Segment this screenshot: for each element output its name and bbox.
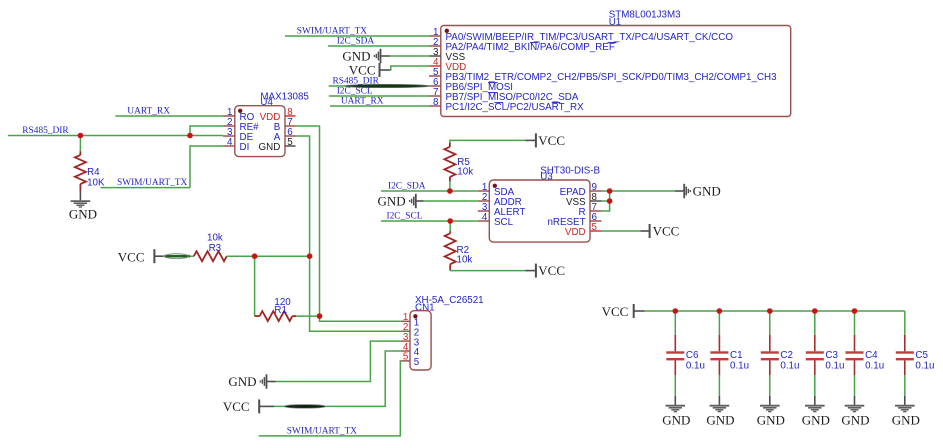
U3 pin 5 stub bbox=[590, 230, 602, 232]
U3 pin 2 stub bbox=[478, 200, 490, 202]
wire net SWIM/UART_TX to U1 pin 1 bbox=[285, 35, 429, 37]
svg-text:U3: U3 bbox=[540, 172, 553, 183]
wire U4 pin 4 DI down to SWIM/UART_TX bbox=[190, 146, 223, 188]
wire VCC to R3 (thick) bbox=[163, 255, 194, 257]
IC U4 body bbox=[235, 106, 285, 157]
junction R3 / net A vertical bbox=[307, 253, 313, 259]
wire net RS485_DIR to U1 pin 6 (thick) bbox=[329, 85, 429, 87]
svg-text:0.1u: 0.1u bbox=[730, 361, 749, 372]
svg-text:GND: GND bbox=[841, 413, 869, 428]
svg-text:UART_RX: UART_RX bbox=[341, 97, 384, 107]
U4 pin 3 stub bbox=[223, 135, 235, 137]
U3 pin 8 stub bbox=[590, 200, 602, 202]
wire U4 pin 6 A down to CN1 pin 2 bbox=[295, 136, 400, 331]
svg-text:8: 8 bbox=[433, 97, 439, 108]
svg-text:10K: 10K bbox=[87, 177, 105, 188]
svg-text:PA2/PA4/TIM2_BKIN/PA6/COMP_REF: PA2/PA4/TIM2_BKIN/PA6/COMP_REF bbox=[446, 42, 615, 53]
svg-text:SCL: SCL bbox=[494, 217, 514, 228]
U1 pin 7 name overline over M of MISO bbox=[488, 92, 498, 94]
ground below R4 bbox=[79, 191, 81, 201]
U3 pin 7 stub bbox=[590, 210, 602, 212]
U4 pin-1 marker dot bbox=[238, 109, 242, 113]
svg-text:VCC: VCC bbox=[349, 63, 376, 78]
svg-text:GND: GND bbox=[892, 413, 920, 428]
wire CN1 pin 4 to VCC (thick) bbox=[274, 351, 401, 406]
wire CN1 pin 3 to GND bbox=[276, 341, 401, 381]
wire VSS and R to EPAD net bbox=[602, 200, 610, 202]
svg-text:PC1/I2C_SCL/PC2/USART_RX: PC1/I2C_SCL/PC2/USART_RX bbox=[446, 102, 585, 113]
U1 pin 2 name trailing overline after COMP_REF bbox=[608, 42, 617, 44]
wire net I2C_SCL to U1 pin 7 bbox=[329, 95, 429, 97]
junction I2C_SCL / R2 bbox=[447, 218, 453, 224]
resistor R2 bbox=[449, 221, 451, 231]
wire net B to CN1 pin 1 bbox=[320, 316, 401, 321]
U3 pin-1 marker dot bbox=[493, 184, 497, 188]
U3 pin 6 stub bbox=[590, 220, 602, 222]
wire GND to U1 pin 3 VSS bbox=[390, 55, 429, 57]
U1 pin 5 stub bbox=[429, 75, 441, 77]
op IC U1 body bbox=[441, 26, 791, 117]
svg-text:GND: GND bbox=[706, 413, 734, 428]
svg-text:GND: GND bbox=[662, 413, 690, 428]
wire R3 to net A bbox=[227, 255, 310, 257]
wire VCC rail bbox=[645, 310, 905, 312]
U1 pin 4 stub bbox=[429, 65, 441, 67]
svg-text:0.1u: 0.1u bbox=[915, 361, 934, 372]
svg-text:GND: GND bbox=[228, 374, 256, 389]
svg-text:C6: C6 bbox=[686, 350, 699, 361]
svg-text:VDD: VDD bbox=[565, 227, 586, 238]
svg-text:C5: C5 bbox=[915, 350, 928, 361]
ground below C6 bbox=[674, 396, 676, 405]
svg-text:4: 4 bbox=[482, 212, 488, 223]
svg-text:GND: GND bbox=[342, 49, 370, 64]
ground below C1 bbox=[718, 396, 720, 405]
svg-text:C2: C2 bbox=[780, 350, 793, 361]
svg-text:0.1u: 0.1u bbox=[825, 361, 844, 372]
junction R3 / R1 branch bbox=[252, 253, 258, 259]
ground below C4 bbox=[854, 396, 856, 405]
U4 pin 7 stub bbox=[285, 125, 296, 127]
U1 pin 1 stub bbox=[429, 35, 441, 37]
ground below C3 bbox=[814, 396, 816, 405]
svg-text:R3: R3 bbox=[209, 243, 222, 254]
junction VSS branch bbox=[607, 198, 613, 204]
wire net SWIM/UART_TX mid bbox=[101, 187, 191, 189]
U1 pin-1 marker dot bbox=[445, 29, 449, 33]
svg-text:VCC: VCC bbox=[223, 399, 250, 414]
wire R2 down to VCC bbox=[450, 270, 525, 272]
svg-text:VCC: VCC bbox=[538, 133, 565, 148]
U4 pin 8 stub bbox=[285, 115, 296, 117]
svg-text:5: 5 bbox=[592, 222, 598, 233]
junction VCC rail / C2 bbox=[767, 308, 773, 314]
U4 pin 2 stub bbox=[223, 125, 235, 127]
svg-text:10k: 10k bbox=[207, 233, 223, 244]
wire net I2C_SCL to U3 pin 4 bbox=[381, 220, 478, 222]
svg-text:VCC: VCC bbox=[538, 263, 565, 278]
svg-text:UART_RX: UART_RX bbox=[127, 107, 170, 117]
svg-text:GND: GND bbox=[378, 194, 406, 209]
wire U4 pin 2 RE# to RS485_DIR bbox=[190, 126, 223, 136]
svg-text:5: 5 bbox=[414, 357, 420, 368]
U1 pin 6 stub bbox=[429, 85, 441, 87]
resistor R1 bbox=[255, 315, 260, 317]
svg-text:I2C_SDA: I2C_SDA bbox=[388, 182, 426, 192]
svg-text:GND: GND bbox=[802, 413, 830, 428]
wire VCC to U1 pin 4 VDD bbox=[390, 66, 429, 70]
svg-text:I2C_SDA: I2C_SDA bbox=[337, 37, 375, 47]
svg-text:10k: 10k bbox=[457, 254, 473, 265]
power symbol VCC right of U3 bbox=[640, 230, 649, 232]
wire net I2C_SDA to U3 pin 1 bbox=[381, 190, 478, 192]
wire R5 up to VCC bbox=[450, 140, 525, 143]
svg-text:0.1u: 0.1u bbox=[865, 361, 884, 372]
capacitor C5 bbox=[904, 311, 906, 335]
wire U4 pin 7 B down to junction bbox=[295, 126, 319, 316]
junction VCC rail / C3 bbox=[812, 308, 818, 314]
U4 pin 1 stub bbox=[223, 115, 235, 117]
U3 pin 4 stub bbox=[478, 220, 490, 222]
resistor R5 bbox=[449, 181, 451, 191]
wire down to R1 bbox=[254, 256, 256, 316]
U1 pin 8 stub bbox=[429, 105, 441, 107]
CN1 pin-1 marker dot bbox=[413, 314, 417, 318]
U1 pin 2 name overline over N of BKIN bbox=[530, 42, 538, 44]
IC U3 body bbox=[489, 180, 590, 242]
U1 pin 7 stub bbox=[429, 95, 441, 97]
wire RS485_DIR down to R4 bbox=[79, 136, 81, 152]
svg-text:SWIM/UART_TX: SWIM/UART_TX bbox=[287, 427, 357, 437]
svg-text:I2C_SCL: I2C_SCL bbox=[337, 87, 373, 97]
wire R1 to junction net B bbox=[296, 315, 320, 317]
junction I2C_SDA / R5 bbox=[447, 188, 453, 194]
svg-text:U4: U4 bbox=[260, 97, 273, 108]
CN1 pin 3 stub bbox=[401, 340, 410, 342]
junction R1 / net B / CN1 pin 1 bbox=[317, 313, 323, 319]
svg-text:R1: R1 bbox=[274, 305, 287, 316]
svg-text:GND: GND bbox=[69, 207, 97, 222]
svg-text:10k: 10k bbox=[457, 167, 473, 178]
U3 pin 9 stub bbox=[590, 190, 602, 192]
power symbol GND right of U3 bbox=[675, 190, 684, 192]
svg-text:C3: C3 bbox=[825, 350, 838, 361]
svg-text:CN1: CN1 bbox=[415, 302, 435, 313]
svg-text:GND: GND bbox=[693, 184, 721, 199]
CN1 pin 2 stub bbox=[401, 330, 410, 332]
junction VCC rail / C1 bbox=[717, 308, 723, 314]
wire U3 pin 5 VDD to VCC bbox=[602, 230, 641, 232]
svg-text:C4: C4 bbox=[865, 350, 878, 361]
svg-text:GND: GND bbox=[757, 413, 785, 428]
U1 pin 3 stub bbox=[429, 55, 441, 57]
svg-text:5: 5 bbox=[287, 137, 293, 148]
wire net UART_RX to U4 pin 1 RO bbox=[115, 115, 223, 117]
power symbol VCC below R2 bbox=[525, 270, 536, 272]
junction RS485_DIR / R4 bbox=[78, 133, 84, 139]
wire U3 pin 9 EPAD to GND bbox=[602, 190, 676, 192]
capacitor C2 bbox=[769, 311, 771, 335]
svg-text:C1: C1 bbox=[730, 350, 743, 361]
capacitor C1 bbox=[718, 311, 720, 335]
wire net RS485_DIR horizontal bbox=[8, 135, 223, 137]
capacitor C4 bbox=[854, 311, 856, 335]
svg-text:GND: GND bbox=[259, 142, 281, 153]
wire CN1 pin 5 to SWIM/UART_TX bbox=[259, 361, 401, 436]
resistor R3 bbox=[194, 251, 227, 261]
wire GND to U3 pin 2 bbox=[424, 200, 478, 202]
junction VCC rail / C4 bbox=[852, 308, 858, 314]
junction RS485_DIR / RE# bbox=[187, 133, 193, 139]
junction VCC rail / C6 bbox=[673, 308, 679, 314]
capacitor C6 bbox=[674, 311, 676, 335]
U1 pin 2 stub bbox=[429, 45, 441, 47]
U4 pin 5 stub bbox=[285, 145, 296, 147]
U3 pin 1 stub bbox=[478, 190, 490, 192]
svg-text:5: 5 bbox=[403, 352, 409, 363]
svg-text:4: 4 bbox=[227, 137, 233, 148]
svg-text:DI: DI bbox=[240, 142, 250, 153]
U1 pin 8 name overline over C of SCL bbox=[495, 102, 504, 104]
wire net UART_RX to U1 pin 8 bbox=[330, 105, 429, 107]
U4 pin 6 stub bbox=[285, 135, 296, 137]
U3 pin 3 stub bbox=[478, 210, 490, 212]
svg-text:RS485_DIR: RS485_DIR bbox=[333, 77, 380, 87]
svg-text:VCC: VCC bbox=[602, 304, 629, 319]
svg-text:I2C_SCL: I2C_SCL bbox=[387, 212, 423, 222]
ground below C2 bbox=[769, 396, 771, 405]
svg-text:0.1u: 0.1u bbox=[780, 361, 799, 372]
svg-text:RS485_DIR: RS485_DIR bbox=[22, 126, 69, 136]
resistor R4 bbox=[79, 151, 81, 155]
svg-text:VCC: VCC bbox=[118, 250, 145, 265]
CN1 pin 4 stub bbox=[401, 350, 410, 352]
junction EPAD / VSS net bbox=[607, 188, 613, 194]
svg-text:VCC: VCC bbox=[653, 224, 680, 239]
svg-text:SWIM/UART_TX: SWIM/UART_TX bbox=[297, 27, 367, 37]
U1 pin 8 name overline over R of USART bbox=[552, 102, 561, 104]
svg-text:0.1u: 0.1u bbox=[686, 361, 705, 372]
CN1 pin 5 stub bbox=[401, 360, 410, 362]
power symbol VCC above R5 bbox=[525, 139, 536, 141]
connector CN1 body bbox=[410, 311, 431, 370]
capacitor C3 bbox=[814, 311, 816, 335]
U1 pin 6 name overline over M of MOSI bbox=[488, 82, 498, 84]
wire net I2C_SDA to U1 pin 2 bbox=[328, 45, 429, 47]
svg-text:SWIM/UART_TX: SWIM/UART_TX bbox=[117, 178, 187, 188]
CN1 pin 1 stub bbox=[401, 320, 410, 322]
ground below C5 bbox=[904, 396, 906, 405]
U4 pin 4 stub bbox=[223, 145, 235, 147]
